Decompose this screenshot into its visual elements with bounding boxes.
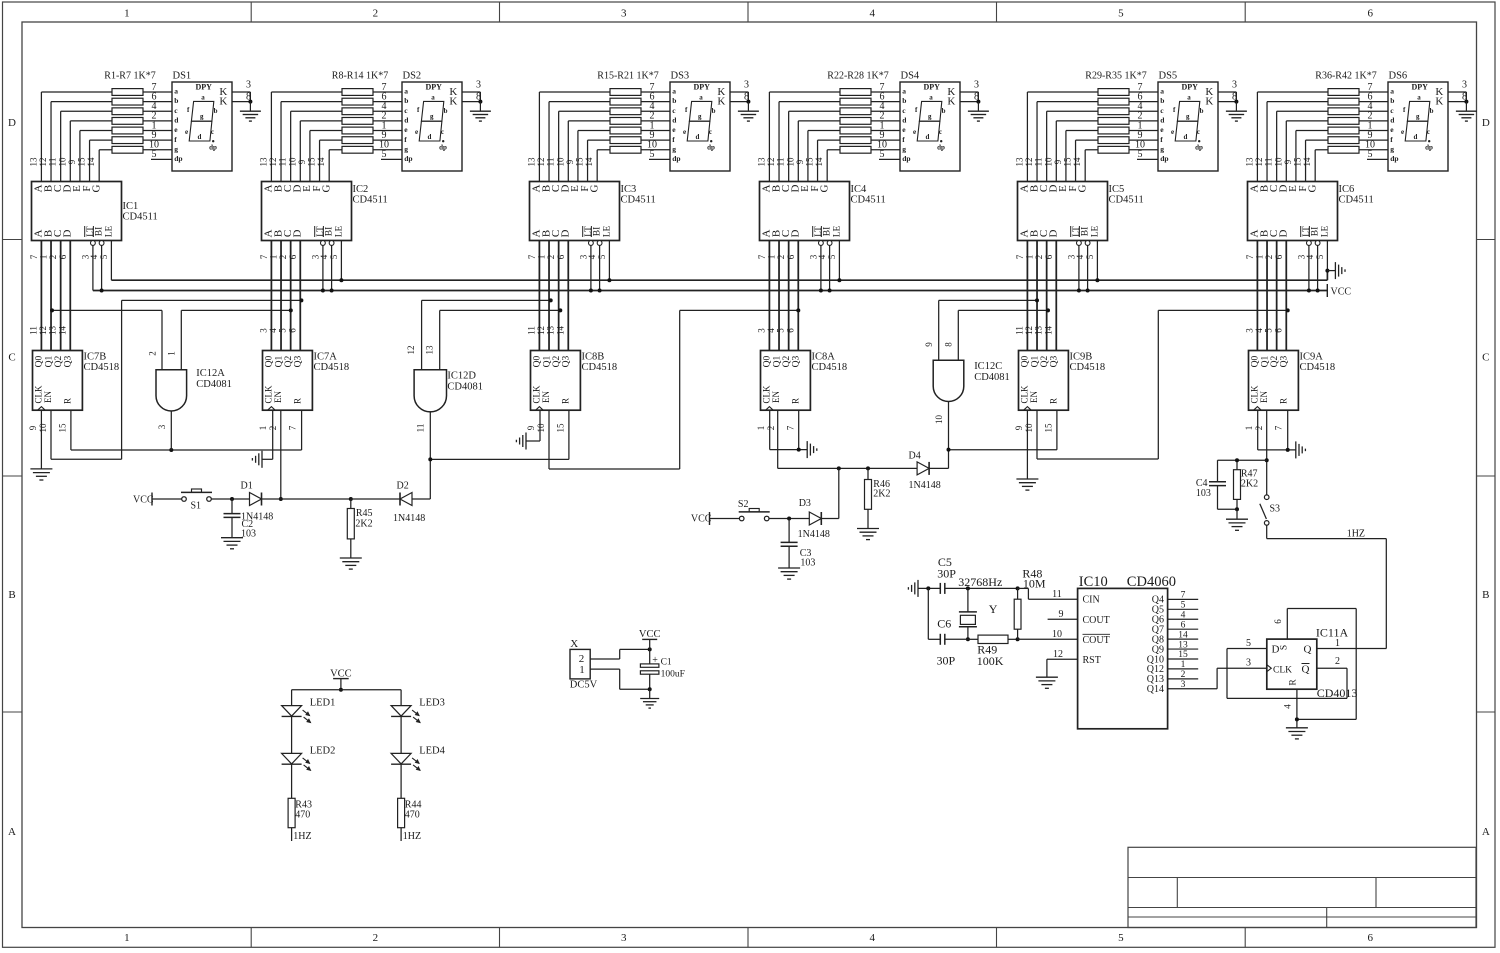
wire IC2 BI to rail (331, 245, 333, 290)
junction display K (746, 100, 750, 104)
svg-text:CD4518: CD4518 (812, 362, 848, 373)
svg-text:e: e (1171, 128, 1174, 136)
svg-text:R: R (1279, 398, 1289, 404)
wire D4 cathode to IC12C output (929, 467, 948, 469)
svg-text:Q1: Q1 (1260, 355, 1270, 367)
svg-text:2: 2 (278, 255, 288, 260)
svg-text:9: 9 (526, 425, 536, 430)
svg-text:IC2: IC2 (353, 184, 369, 195)
wire IC3 pin C to counter (558, 241, 560, 351)
junction IC7A EN - D1 (279, 497, 283, 501)
wire IC3 LE to rail (608, 241, 610, 281)
svg-text:2: 2 (48, 255, 58, 260)
svg-text:4: 4 (869, 932, 875, 944)
wire IC1 LE to rail (110, 241, 112, 281)
svg-text:G: G (1306, 184, 1318, 192)
svg-text:D2: D2 (397, 481, 409, 492)
svg-text:DS3: DS3 (671, 71, 690, 82)
svg-text:R1-R7 1K*7: R1-R7 1K*7 (104, 71, 155, 82)
svg-text:R29-R35 1K*7: R29-R35 1K*7 (1085, 71, 1146, 82)
resistor R30 (1098, 98, 1129, 105)
svg-text:8: 8 (944, 342, 954, 347)
svg-text:3: 3 (756, 328, 766, 333)
wire dp stub pin 5 (649, 158, 670, 160)
resistor R35 (1098, 146, 1129, 153)
svg-text:dp: dp (1160, 154, 1168, 163)
svg-text:9: 9 (1053, 159, 1063, 164)
svg-text:4: 4 (89, 254, 99, 259)
svg-text:X: X (570, 638, 578, 650)
border row ticks left (3, 239, 23, 241)
svg-text:d: d (1413, 133, 1417, 141)
svg-text:9: 9 (1014, 425, 1024, 430)
svg-text:14: 14 (57, 326, 67, 336)
wire IC8A CLK-R to ground (769, 410, 771, 449)
wire resistor to display (373, 139, 402, 141)
svg-text:D: D (1272, 644, 1280, 656)
svg-text:DS4: DS4 (901, 71, 920, 82)
svg-text:Q0: Q0 (265, 355, 275, 367)
svg-text:a: a (431, 94, 435, 102)
wire resistor to display (871, 139, 900, 141)
svg-text:D: D (292, 229, 304, 237)
wire resistor to display (1359, 139, 1388, 141)
svg-text:g: g (174, 144, 178, 153)
junction display K (1464, 100, 1468, 104)
svg-text:14: 14 (584, 157, 594, 167)
wire pair1 reset rail (70, 410, 72, 450)
svg-text:IC6: IC6 (1339, 184, 1355, 195)
wire IC4 input C to resistor (788, 111, 790, 181)
svg-text:6: 6 (1274, 254, 1284, 259)
resistor R4 (112, 117, 143, 124)
wire IC7B EN cascade net (50, 410, 52, 459)
svg-text:15: 15 (805, 157, 815, 167)
wire IC6 input G to resistor (1314, 150, 1316, 182)
LED LED1 (282, 706, 302, 717)
svg-text:C6: C6 (937, 617, 951, 631)
svg-text:13: 13 (546, 326, 556, 336)
wire IC3 pin B to counter (548, 241, 550, 351)
diode D4 1N4148 (917, 462, 929, 475)
svg-text:5: 5 (1085, 254, 1095, 259)
svg-text:b: b (1390, 96, 1394, 105)
svg-text:LED1: LED1 (310, 698, 336, 709)
svg-text:3: 3 (744, 80, 749, 91)
junction IC8A R (797, 448, 801, 452)
svg-text:5: 5 (1118, 8, 1124, 20)
svg-text:LED4: LED4 (419, 745, 445, 756)
connector X DC5V (570, 649, 590, 679)
display seven-segment glyph (1175, 101, 1200, 141)
svg-text:13: 13 (1178, 640, 1188, 650)
svg-text:5: 5 (1246, 638, 1251, 649)
svg-text:9: 9 (924, 342, 934, 347)
svg-text:3: 3 (1181, 680, 1186, 690)
wire dp stub pin 5 (151, 158, 172, 160)
svg-text:D: D (1278, 229, 1290, 237)
svg-text:CLK: CLK (1249, 385, 1259, 404)
svg-text:K: K (1205, 96, 1213, 108)
svg-text:32768Hz: 32768Hz (958, 575, 1002, 589)
svg-text:15: 15 (555, 423, 565, 433)
ground IC8B CLK (525, 433, 527, 450)
AND gate IC12A CD4081 (156, 370, 187, 411)
svg-text:R: R (293, 398, 303, 404)
ground display K (249, 102, 251, 112)
ground IC11A (1286, 727, 1308, 729)
switch S1 (182, 497, 187, 502)
svg-text:COUT: COUT (1083, 615, 1110, 626)
svg-text:g: g (1186, 113, 1190, 121)
svg-text:IC4: IC4 (851, 184, 868, 195)
svg-text:7: 7 (259, 254, 269, 259)
svg-text:4: 4 (817, 254, 827, 259)
capacitor C3 103 (788, 519, 790, 543)
wire IC2 input D to resistor (299, 121, 301, 182)
wire IC12C input 8 from IC9B Q2 (957, 310, 959, 360)
svg-text:3: 3 (1246, 658, 1251, 669)
inverter bubble IC2 LT (321, 241, 326, 246)
counter IC8A CD4518 (761, 351, 811, 411)
svg-text:DS1: DS1 (173, 71, 192, 82)
svg-text:LED3: LED3 (419, 698, 445, 709)
svg-text:R: R (561, 398, 571, 404)
wire IC2 input B to resistor (280, 102, 282, 182)
svg-text:Q1: Q1 (274, 355, 284, 367)
svg-text:CD4081: CD4081 (974, 372, 1010, 383)
ground C4-R47 (1236, 509, 1238, 519)
wire LED1 branch (291, 690, 293, 706)
wire X pin2 to VCC node (590, 658, 620, 660)
wire IC12A input 2 from IC7B Q1 (161, 310, 163, 369)
svg-text:EN: EN (1029, 391, 1039, 403)
wire LED3 to LED4 (400, 716, 402, 753)
wire IC2 input G to resistor (328, 150, 330, 182)
junction R46 top (866, 466, 870, 470)
wire crystal node to CIN (1018, 587, 1029, 589)
wire IC6 input E to resistor (1295, 131, 1297, 182)
junction display K (248, 100, 252, 104)
wire IC8B R to IC12D output (568, 410, 570, 459)
svg-text:5: 5 (1368, 149, 1373, 160)
inverter bubble IC5 BI (1085, 241, 1090, 246)
svg-text:a: a (929, 94, 933, 102)
svg-text:4: 4 (1181, 610, 1186, 620)
wire COUT stub pin 9 (1048, 618, 1078, 620)
ground IC9B CLK (1016, 478, 1038, 480)
wire resistor to display (871, 130, 900, 132)
svg-text:IC5: IC5 (1109, 184, 1125, 195)
wire IC9A CLK-R to ground (1257, 410, 1259, 450)
svg-text:12: 12 (1024, 326, 1034, 335)
svg-text:4: 4 (766, 328, 776, 333)
svg-text:b: b (214, 107, 218, 115)
counter IC9B CD4518 (1019, 351, 1069, 411)
svg-text:4: 4 (319, 254, 329, 259)
svg-text:12: 12 (536, 326, 546, 335)
svg-text:1: 1 (1181, 660, 1186, 670)
svg-text:Q2: Q2 (1270, 355, 1280, 367)
ground RST (1036, 676, 1058, 678)
svg-text:15: 15 (57, 423, 67, 433)
svg-text:e: e (415, 128, 418, 136)
wire display K pins (232, 91, 250, 93)
svg-text:C: C (1482, 352, 1489, 364)
wire resistor to display (871, 110, 900, 112)
svg-text:G: G (588, 184, 600, 192)
svg-text:DPY: DPY (694, 83, 711, 92)
svg-text:11: 11 (278, 158, 288, 167)
junction C1 bottom (648, 687, 652, 691)
IC3 CD4511 (530, 182, 620, 241)
wire resistor to display (373, 130, 402, 132)
svg-text:4: 4 (1254, 328, 1264, 333)
svg-text:Q2: Q2 (552, 355, 562, 367)
wire IC7A EN to set chain (280, 410, 282, 499)
svg-text:4: 4 (268, 328, 278, 333)
svg-text:5: 5 (597, 254, 607, 259)
svg-text:12: 12 (268, 158, 278, 167)
svg-text:e: e (185, 128, 188, 136)
wire IC4 BI to rail (829, 245, 831, 290)
wire IC5 input D to resistor (1055, 121, 1057, 182)
border column ticks bottom (250, 928, 252, 948)
inverter bubble IC4 LT (819, 241, 824, 246)
svg-text:7: 7 (1015, 254, 1025, 259)
svg-text:100uF: 100uF (661, 669, 685, 679)
svg-text:2K2: 2K2 (873, 489, 890, 500)
svg-text:2: 2 (373, 932, 379, 944)
svg-text:CD4518: CD4518 (1070, 362, 1106, 373)
svg-text:1: 1 (1025, 255, 1035, 260)
svg-text:e: e (1401, 128, 1404, 136)
wire IC12A output pin 3 (170, 411, 172, 450)
wire IC5 input B to resistor (1036, 102, 1038, 182)
wire C5 to crystal node (945, 587, 1018, 589)
svg-text:11: 11 (416, 424, 426, 433)
svg-text:5: 5 (827, 254, 837, 259)
wire IC4 LE to rail (838, 241, 840, 281)
svg-text:e: e (913, 128, 916, 136)
svg-text:IC12C: IC12C (974, 361, 1002, 372)
wire LED4 to R44 (400, 764, 402, 798)
junction LED VCC (339, 688, 343, 692)
svg-text:2: 2 (776, 255, 786, 260)
wire S3 to 1HZ line (1266, 525, 1268, 538)
svg-text:2: 2 (1264, 255, 1274, 260)
junction D3 branch (837, 466, 841, 470)
wire resistor to display (641, 120, 670, 122)
svg-text:3: 3 (157, 424, 167, 429)
resistor R27 (840, 137, 871, 144)
wire S1 to D1 (211, 498, 249, 500)
svg-text:9: 9 (565, 159, 575, 164)
wire display K pins (730, 91, 748, 93)
svg-text:6: 6 (58, 254, 68, 259)
wire resistor to display (143, 120, 172, 122)
resistor R39 (1328, 117, 1359, 124)
svg-text:12: 12 (1024, 158, 1034, 167)
wire IC11A S-R ground loop (1286, 609, 1288, 640)
wire IC1 input A to resistor (40, 92, 42, 182)
svg-text:DC5V: DC5V (570, 680, 598, 691)
rail LE net (111, 279, 1327, 281)
svg-text:dp: dp (1425, 144, 1433, 152)
junction IC9A R (1286, 448, 1290, 452)
svg-text:12: 12 (766, 158, 776, 167)
svg-text:D4: D4 (909, 451, 921, 462)
wire resistor to display (1129, 130, 1158, 132)
wire resistor to display (1359, 110, 1388, 112)
svg-text:2: 2 (147, 351, 157, 356)
wire resistor to display (641, 91, 670, 93)
svg-text:BI: BI (1081, 227, 1091, 237)
svg-text:11: 11 (1264, 158, 1274, 167)
display DS6 (1388, 82, 1448, 171)
junction C4-R47 bottom (1235, 507, 1239, 511)
wire IC1 input D to resistor (69, 121, 71, 182)
svg-text:CD4511: CD4511 (851, 195, 886, 206)
wire IC5 pin C to counter (1046, 241, 1048, 351)
svg-text:1: 1 (124, 932, 130, 944)
svg-text:3: 3 (1244, 328, 1254, 333)
svg-text:CD4511: CD4511 (123, 212, 158, 223)
wire IC3 input E to resistor (577, 131, 579, 182)
junction LE-IC6-ground (1325, 269, 1329, 273)
svg-text:S1: S1 (191, 501, 202, 512)
svg-text:g: g (1160, 144, 1164, 153)
svg-text:6: 6 (1181, 620, 1186, 630)
svg-text:5: 5 (650, 149, 655, 160)
svg-text:g: g (404, 144, 408, 153)
svg-text:EN: EN (273, 391, 283, 403)
AND gate IC12C CD4081 (933, 360, 964, 401)
wire IC9A EN to S3 (1266, 410, 1268, 495)
resistor R44 470 (398, 798, 405, 827)
svg-text:6: 6 (1273, 619, 1283, 624)
svg-text:DPY: DPY (924, 83, 941, 92)
ground IC9A CLK-R (1295, 441, 1297, 458)
svg-text:11: 11 (526, 326, 536, 335)
svg-text:b: b (444, 107, 448, 115)
counter IC7B CD4518 (33, 351, 83, 411)
svg-text:7: 7 (527, 254, 537, 259)
svg-text:VCC: VCC (133, 495, 154, 506)
svg-text:2K2: 2K2 (1241, 479, 1258, 490)
svg-text:dp: dp (209, 144, 217, 152)
resistor R29 (1098, 89, 1129, 96)
wire IC1 pin A to counter (40, 241, 42, 351)
wire IC12D output pin 11 to D2 and IC8B R (429, 411, 431, 499)
resistor R12 (342, 127, 373, 134)
wire IC3 pin D to counter (567, 241, 569, 351)
wire IC11A R pin 4 (1296, 689, 1298, 728)
svg-text:dp: dp (174, 154, 182, 163)
svg-text:dp: dp (439, 144, 447, 152)
resistor R1 (112, 89, 143, 96)
svg-text:c: c (1427, 128, 1430, 136)
wire IC3 LT to rail (590, 245, 592, 290)
clock wedge IC9A (1254, 407, 1262, 411)
svg-text:K: K (449, 96, 457, 108)
wire S2 to D3 (769, 518, 809, 520)
svg-text:LED2: LED2 (310, 745, 336, 756)
display DS4 (900, 82, 960, 171)
svg-text:A: A (1482, 826, 1490, 838)
svg-text:6: 6 (1368, 932, 1374, 944)
wire IC11A Q output pin 1 (1317, 648, 1387, 650)
wire IC2 input E to resistor (309, 131, 311, 182)
wire ground to C5 (918, 587, 940, 589)
svg-text:15: 15 (1063, 157, 1073, 167)
svg-text:EN: EN (43, 391, 53, 403)
wire IC8B EN cascade net (548, 410, 550, 469)
wire IC2 LT to rail (322, 245, 324, 290)
junction display K (976, 100, 980, 104)
wire IC5 input G to resistor (1084, 150, 1086, 182)
svg-text:b: b (902, 96, 906, 105)
svg-text:CLK: CLK (263, 385, 273, 404)
wire IC4 input D to resistor (797, 121, 799, 182)
svg-text:R: R (63, 398, 73, 404)
wire IC3 input G to resistor (596, 150, 598, 182)
wire dp stub pin 5 (381, 158, 402, 160)
wire display K pins (1218, 91, 1236, 93)
svg-text:14: 14 (86, 157, 96, 167)
svg-text:R8-R14 1K*7: R8-R14 1K*7 (332, 71, 388, 82)
svg-text:d: d (197, 133, 201, 141)
svg-text:G: G (320, 184, 332, 192)
wire IC4 input F to resistor (817, 140, 819, 181)
svg-text:G: G (1076, 184, 1088, 192)
svg-text:10: 10 (1024, 423, 1034, 433)
svg-text:15: 15 (307, 157, 317, 167)
wire IC7B CLK to ground (40, 410, 42, 469)
svg-text:g: g (430, 113, 434, 121)
svg-text:5: 5 (1138, 149, 1143, 160)
wire LED3 branch (400, 690, 402, 706)
svg-text:1: 1 (1255, 255, 1265, 260)
svg-text:30P: 30P (937, 654, 956, 668)
display seven-segment glyph (687, 101, 712, 141)
svg-text:13: 13 (1244, 157, 1254, 167)
svg-text:IC7A: IC7A (314, 352, 338, 363)
resistor R20 (610, 137, 641, 144)
svg-text:5: 5 (880, 149, 885, 160)
resistor R15 (610, 89, 641, 96)
title block (1128, 847, 1476, 927)
wire COUT to IC10 (1018, 638, 1078, 640)
resistor R17 (610, 108, 641, 115)
svg-text:Q1: Q1 (44, 355, 54, 367)
resistor R9 (342, 98, 373, 105)
svg-text:K: K (219, 96, 227, 108)
wire IC5 pin A to counter (1026, 241, 1028, 351)
svg-text:5: 5 (1264, 328, 1274, 333)
svg-text:CD4511: CD4511 (1339, 195, 1374, 206)
wire IC1 pin D to counter (69, 241, 71, 351)
svg-text:1: 1 (537, 255, 547, 260)
power VCC at C1 (642, 638, 657, 640)
svg-text:g: g (200, 113, 204, 121)
counter IC7A CD4518 (263, 351, 313, 411)
wire IC9B CLK to ground (1026, 410, 1028, 479)
junction LE rail (1095, 278, 1099, 282)
svg-text:103: 103 (241, 529, 256, 540)
svg-text:12: 12 (536, 158, 546, 167)
svg-text:d: d (925, 133, 929, 141)
